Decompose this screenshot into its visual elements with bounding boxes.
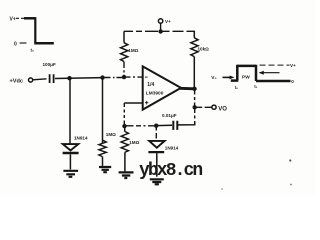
output waveform top [236,65,256,68]
wire C2 to node D [156,124,172,126]
diode D1 triangle [63,144,79,150]
resistor R2 zigzag [121,43,128,62]
capacitor C1 plates [50,74,54,83]
resistor R1 lead to ground [102,157,104,166]
resistor R3 zigzag [191,38,198,57]
wire node C to op-amp top input (dashed) [126,76,143,78]
stray speck 2 [290,184,292,186]
ground under R1 [99,167,111,172]
output waveform width arrow [260,72,280,74]
input step waveform zero dash [20,42,27,44]
svg-text:100μF: 100μF [43,62,56,67]
diode D1 cathode bar [63,152,79,155]
svg-text:+Vdc: +Vdc [10,79,24,85]
svg-text:t₀: t₀ [31,48,35,53]
svg-text:0: 0 [14,41,17,47]
output waveform V+ dashed level [260,64,290,66]
pull-up resistor R2 1M lead from rail [123,31,125,42]
resistor R2 lead to node C [123,62,125,78]
op-amp U1 minus (top) input tick [145,76,148,78]
resistor R3 lead to output node [193,57,195,89]
svg-text:V₀: V₀ [211,75,216,81]
V+ rail junction dot [158,29,162,33]
svg-text:PW: PW [242,74,250,80]
op-amp output wire [180,87,195,90]
diode D2 lead to ground [156,153,158,177]
output waveform rising edge [236,66,239,81]
svg-text:10kΩ: 10kΩ [198,46,210,51]
input step waveform top solid level [24,17,36,20]
svg-text:t₀: t₀ [235,85,238,90]
node A junction dot (diode D1 tap) [67,76,71,80]
resistor R1 zigzag [99,140,106,156]
wire node B to node C (dash-dot) [105,77,123,79]
diode D1 1N914 lead from node A [69,79,71,144]
svg-text:1/4: 1/4 [147,82,154,88]
wire bottom input down to feedback node (dashed) [123,103,125,125]
diode D1 lead to ground [69,154,71,169]
svg-text:LM3900: LM3900 [146,91,164,97]
input terminal circle [29,78,33,82]
wire VO tap to VO terminal (dash-dot) [197,106,212,108]
ground under D2 [150,179,164,184]
diode D2 triangle [149,141,164,148]
op-amp U1 triangle [143,66,181,109]
output waveform baseline left [231,79,239,82]
output waveform baseline right [256,80,291,83]
diode D2 cathode bar [148,151,164,153]
wire node D to node E (dash-dot) [127,125,155,127]
output node junction dot [192,87,196,91]
wire capacitor to node A [55,77,103,80]
wire VO tap down to feedback wire (dashed) [194,110,196,125]
resistor R4 zigzag [121,131,128,152]
svg-text:V+: V+ [10,16,16,22]
wire output node down to VO tap (dashed) [194,91,196,107]
wire corner down to feedback line [178,122,195,125]
input step waveform falling edge [34,17,36,43]
ground under D1 [63,171,78,177]
svg-text:0: 0 [291,79,294,84]
svg-text:1N914: 1N914 [165,145,179,150]
op-amp U1 bottom input lead [124,102,142,104]
input step waveform bottom level [34,42,54,45]
svg-text:V+: V+ [290,63,296,68]
ground under R4 [119,172,134,178]
input step waveform top dashed level [16,17,24,19]
resistor R1 1M lead from node B [102,78,104,143]
svg-text:ybx8.cn: ybx8.cn [139,161,202,181]
output waveform input arrow [223,76,231,78]
VO tap junction dot [193,105,197,109]
node B junction dot (R1 tap) [100,75,104,79]
node D junction dot (diode D2 tap) [154,124,158,128]
svg-text:1MΩ: 1MΩ [129,140,139,145]
svg-text:1MΩ: 1MΩ [128,48,138,53]
pull-up resistor R3 10k lead from rail [193,31,195,38]
svg-text:VO: VO [218,106,227,112]
svg-text:V+: V+ [165,19,171,24]
op-amp U1 plus (bottom) input sign [145,101,148,104]
stray speck 3 [221,188,223,190]
VO terminal circle [212,105,216,109]
resistor R4 lead to ground [124,152,126,171]
V+ terminal circle [158,19,162,23]
wire input terminal to capacitor [33,79,47,80]
node C junction dot (pull-up R2 tap) [122,75,126,79]
node E junction dot (feedback / + input node) [122,124,126,128]
resistor R4 1M lead from node E [124,126,126,132]
svg-text:1MΩ: 1MΩ [106,132,116,137]
svg-text:t₁: t₁ [254,84,257,89]
svg-text:0.01μF: 0.01μF [162,113,177,118]
output waveform falling edge [255,65,258,81]
stray speck [289,159,291,161]
capacitor C2 plates [173,121,177,130]
svg-text:1N914: 1N914 [74,135,88,140]
diode D2 1N914 lead from node D (dashed) [155,128,157,139]
V+ rail (dash-dot) [124,30,195,32]
V+ lead down to rail [160,23,162,30]
